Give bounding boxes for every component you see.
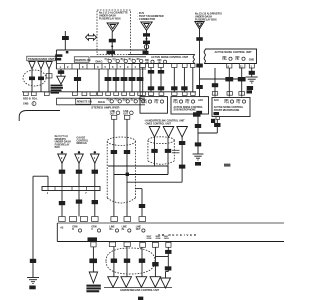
ground symbol bottom left bbox=[27, 278, 39, 290]
shielded cable cylinder 2 bbox=[148, 137, 174, 164]
shield link H3 bbox=[127, 181, 182, 183]
svg-text:+B: +B bbox=[60, 226, 64, 230]
E-LIN label bbox=[88, 237, 98, 241]
svg-text:F(+): F(+) bbox=[174, 102, 179, 104]
fuse No.22 triangle bbox=[195, 22, 204, 30]
STEREO AMPLIFIER title bbox=[91, 106, 120, 110]
stereo amp feed wires WHT PUR GRN PNK GRN bbox=[99, 69, 143, 92]
handsfreelink control unit label bbox=[104, 288, 172, 292]
GND pin cell under box B bbox=[193, 112, 215, 123]
wires WHT to bus bar bbox=[59, 163, 98, 186]
line out wire 1 bbox=[111, 119, 117, 216]
wire BLK from box C pin bbox=[198, 117, 221, 134]
ground symbol mid right bbox=[193, 154, 204, 166]
jogged wire to small triangle bbox=[155, 247, 171, 278]
front microphone box C bbox=[212, 98, 250, 117]
svg-text:BOX: BOX bbox=[55, 146, 61, 149]
sub microphone box A bbox=[140, 97, 168, 114]
legend bullet notes bbox=[144, 120, 185, 126]
handsfree dashed loom oval bbox=[106, 248, 155, 274]
wires LT GRN under ANC unit 2 bbox=[225, 68, 245, 97]
GND label above front microphone bbox=[247, 90, 253, 93]
sub microphone box B bbox=[171, 97, 209, 114]
svg-text:SUB MICROPHONE: SUB MICROPHONE bbox=[174, 109, 197, 112]
LINE OUT terminals bbox=[110, 111, 133, 115]
ground wire from box B bbox=[195, 114, 201, 154]
svg-text:DIAG: DIAG bbox=[96, 59, 103, 63]
wires from bus bar down bbox=[59, 191, 98, 217]
svg-text:GNB: GNB bbox=[23, 102, 29, 105]
transceiver wire labels RED-B RD-L bbox=[23, 98, 38, 106]
tachometer triangle bbox=[141, 22, 152, 31]
shield stub exits bbox=[172, 150, 180, 153]
XM receiver top pin cells bbox=[59, 217, 146, 222]
shield link H1 bbox=[108, 166, 168, 175]
XM receiver bottom edge bus line bbox=[57, 241, 284, 243]
svg-text:FUSE/RELAY BOX: FUSE/RELAY BOX bbox=[99, 18, 121, 21]
svg-text:RED-B: RED-B bbox=[23, 98, 31, 101]
top band bus line L1 bbox=[56, 50, 146, 69]
ground symbol right bbox=[246, 77, 258, 90]
svg-text:FRONT MICROPHONE: FRONT MICROPHONE bbox=[214, 109, 240, 112]
stereo amp pin cells row2 bbox=[73, 92, 143, 96]
joint connector bus bar bbox=[42, 187, 100, 195]
shielded cable cylinder 1 bbox=[107, 137, 135, 203]
multiplex integrated control unit label bottom bbox=[86, 285, 100, 293]
wire PNK to multiplex unit bbox=[58, 69, 64, 76]
gauge control module label bbox=[77, 137, 89, 146]
transceiver triangles bbox=[29, 62, 52, 70]
fuse No.5 label block bbox=[55, 135, 71, 149]
LINE OUT pin cells C16 C18 bbox=[111, 115, 129, 119]
line out wire 2 bbox=[124, 119, 130, 216]
svg-text:IN -: IN - bbox=[122, 229, 126, 231]
svg-text:REMOTE ON: REMOTE ON bbox=[75, 59, 90, 62]
wire to front microphone column 1 bbox=[212, 68, 218, 97]
fuse box No.2 dashed enclosure bbox=[97, 10, 131, 55]
wire WHT into top band bbox=[62, 31, 69, 50]
gauge feed triangle 2 bbox=[75, 151, 84, 163]
svg-text:DIAG: DIAG bbox=[98, 100, 105, 104]
svg-text:OUT: OUT bbox=[136, 229, 141, 231]
gauge feed triangle 3 bbox=[91, 151, 100, 163]
wire PUR from fuse No.22 bbox=[196, 29, 203, 97]
fuse No.2 connector triangle bbox=[107, 23, 119, 32]
stray mark bbox=[224, 164, 230, 167]
svg-text:ACTIVE NOISE CONTROL UNIT: ACTIVE NOISE CONTROL UNIT bbox=[215, 51, 253, 54]
transceiver dashed circle bbox=[23, 70, 46, 86]
REMOTE ON box (upper) bbox=[74, 57, 90, 62]
wire from fuse No.2 bbox=[107, 32, 116, 57]
svg-text:F(+): F(+) bbox=[225, 102, 230, 104]
active noise control unit box 1 bbox=[128, 55, 195, 65]
handsfree triangles trio bbox=[149, 127, 187, 138]
wire LT GRN to multiplex bbox=[89, 247, 97, 272]
svg-text:ACC: ACC bbox=[198, 99, 203, 102]
microphone pin cells above mic boxes bbox=[140, 92, 244, 96]
wire from triangle 3 bbox=[179, 137, 185, 182]
svg-text:TRANSCEIVER UNIT: TRANSCEIVER UNIT bbox=[28, 57, 55, 61]
ANC unit 1 pin cells bbox=[140, 64, 195, 68]
stereo amplifier box bottom corner bbox=[19, 111, 60, 122]
svg-text:GND: GND bbox=[249, 59, 255, 62]
XM receiver box bbox=[57, 223, 284, 242]
ground wire BLK from ANC unit 2 bbox=[249, 68, 255, 77]
svg-text:F(-): F(-) bbox=[155, 102, 159, 104]
handsfree triangles bottom bbox=[108, 277, 171, 288]
svg-text:F(+): F(+) bbox=[143, 102, 148, 104]
svg-text:FB+: FB+ bbox=[223, 59, 228, 61]
svg-text:MODULE: MODULE bbox=[77, 142, 88, 145]
svg-text:ACTIVE NOISE CONTROL UNIT: ACTIVE NOISE CONTROL UNIT bbox=[151, 56, 189, 59]
svg-text:GRN: GRN bbox=[164, 238, 169, 240]
transceiver unit label bbox=[27, 56, 55, 61]
wire to XM receiver column bbox=[135, 189, 145, 217]
svg-text:F(-): F(-) bbox=[237, 102, 241, 104]
multiplex integrated control unit label bbox=[51, 85, 64, 94]
gauge feed triangle 1 bbox=[58, 151, 67, 163]
multiplex triangle bottom bbox=[89, 272, 97, 283]
svg-text:ACC: ACC bbox=[214, 99, 219, 102]
shield link H2 bbox=[114, 173, 168, 176]
REMOTE ON box (stereo amplifier) bbox=[76, 99, 92, 105]
transceiver C1 C2 cells bbox=[24, 92, 50, 96]
svg-text:· ONES CONTROL UNIT: · ONES CONTROL UNIT bbox=[144, 122, 171, 125]
svg-text:· CONNECTOR: · CONNECTOR bbox=[138, 18, 156, 21]
svg-text:REMOTE ON: REMOTE ON bbox=[77, 101, 92, 104]
small labels above bottom edge bbox=[147, 236, 170, 240]
ACC branch line bbox=[200, 78, 242, 80]
inter-sheet jump arrow bbox=[86, 34, 97, 40]
ground branch wire left bbox=[30, 176, 48, 277]
svg-text:F(-): F(-) bbox=[186, 102, 190, 104]
wire from tachometer with PNK label bbox=[143, 31, 151, 55]
cylinder 2 wires bbox=[151, 137, 171, 174]
svg-text:IN +: IN + bbox=[109, 229, 114, 231]
XM receiver terminal labels bbox=[72, 227, 145, 232]
svg-text:FB-: FB- bbox=[236, 59, 240, 61]
active noise control unit box 2 bbox=[204, 49, 257, 64]
multiplex integrated control unit triangle bbox=[57, 76, 65, 84]
svg-text:GRN: GRN bbox=[147, 238, 152, 240]
terminal circles F(+) F(-) B(+) B(-) upper row bbox=[105, 59, 143, 63]
test tachometer connector label bbox=[138, 12, 164, 21]
svg-text:STEREO AMPLIFIER: STEREO AMPLIFIER bbox=[91, 106, 120, 110]
BAT R / ACT label bbox=[55, 54, 62, 60]
stereo amplifier pin row top edge bbox=[22, 92, 196, 98]
svg-text:GRN: GRN bbox=[156, 238, 161, 240]
stereo amplifier label strip bbox=[56, 98, 145, 105]
corner blob bottom bbox=[138, 297, 143, 300]
fuse box No.22 label bbox=[195, 13, 222, 22]
XM RECEIVER title bbox=[158, 233, 197, 237]
svg-text:HANDSFREELINK CONTROL UNIT: HANDSFREELINK CONTROL UNIT bbox=[120, 289, 160, 292]
wire REMOTE ON column bbox=[74, 69, 81, 92]
ANC unit 2 pin cells bbox=[227, 64, 255, 69]
microphone wires under ANC unit 1 bbox=[143, 68, 193, 92]
bottom pin cells under bus line bbox=[91, 242, 171, 247]
handsfree wires from XM receiver bbox=[111, 247, 159, 277]
transceiver wires bbox=[29, 69, 52, 92]
upper pin-number cells row bbox=[56, 64, 146, 69]
svg-text:RD-L: RD-L bbox=[32, 98, 38, 101]
DIAG row edge bbox=[90, 57, 146, 64]
